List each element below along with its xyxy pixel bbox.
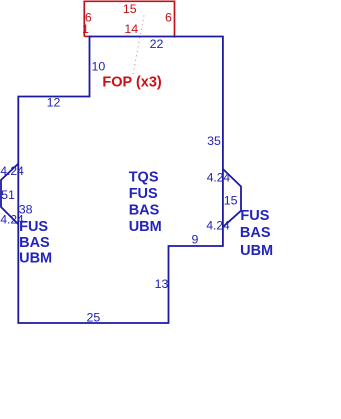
svg-text:UBM: UBM — [19, 250, 52, 266]
svg-text:22: 22 — [150, 37, 164, 51]
svg-text:FUS: FUS — [240, 208, 269, 224]
svg-text:FUS: FUS — [19, 219, 48, 235]
svg-text:25: 25 — [87, 310, 101, 324]
svg-text:1: 1 — [82, 22, 89, 36]
porch outline FOP (red, open at bottom onto house wall) — [84, 1, 174, 37]
svg-text:TQS: TQS — [129, 170, 159, 186]
svg-text:12: 12 — [47, 96, 61, 110]
left bay window — [1, 164, 18, 225]
main house outline — [18, 37, 223, 324]
svg-text:6: 6 — [165, 10, 172, 24]
svg-text:4.24: 4.24 — [207, 170, 231, 184]
svg-text:BAS: BAS — [129, 202, 160, 218]
svg-text:15: 15 — [224, 193, 238, 207]
svg-text:FUS: FUS — [129, 186, 158, 202]
svg-text:13: 13 — [155, 277, 169, 291]
svg-text:35: 35 — [207, 134, 221, 148]
right bay window — [223, 169, 241, 227]
svg-text:UBM: UBM — [240, 243, 273, 259]
leader dotted line from FOP label to porch — [133, 13, 145, 74]
svg-text:4.24: 4.24 — [0, 164, 24, 178]
svg-text:9: 9 — [192, 233, 199, 247]
svg-text:BAS: BAS — [19, 235, 50, 251]
porch bottom-left stub — [84, 35, 92, 37]
svg-text:15: 15 — [123, 2, 137, 16]
svg-text:4.24: 4.24 — [206, 219, 230, 233]
svg-text:10: 10 — [92, 60, 106, 74]
svg-text:BAS: BAS — [240, 225, 271, 241]
svg-text:14: 14 — [124, 22, 138, 36]
svg-text:51: 51 — [1, 188, 15, 202]
svg-text:FOP (x3): FOP (x3) — [102, 74, 162, 90]
svg-text:UBM: UBM — [129, 219, 162, 235]
